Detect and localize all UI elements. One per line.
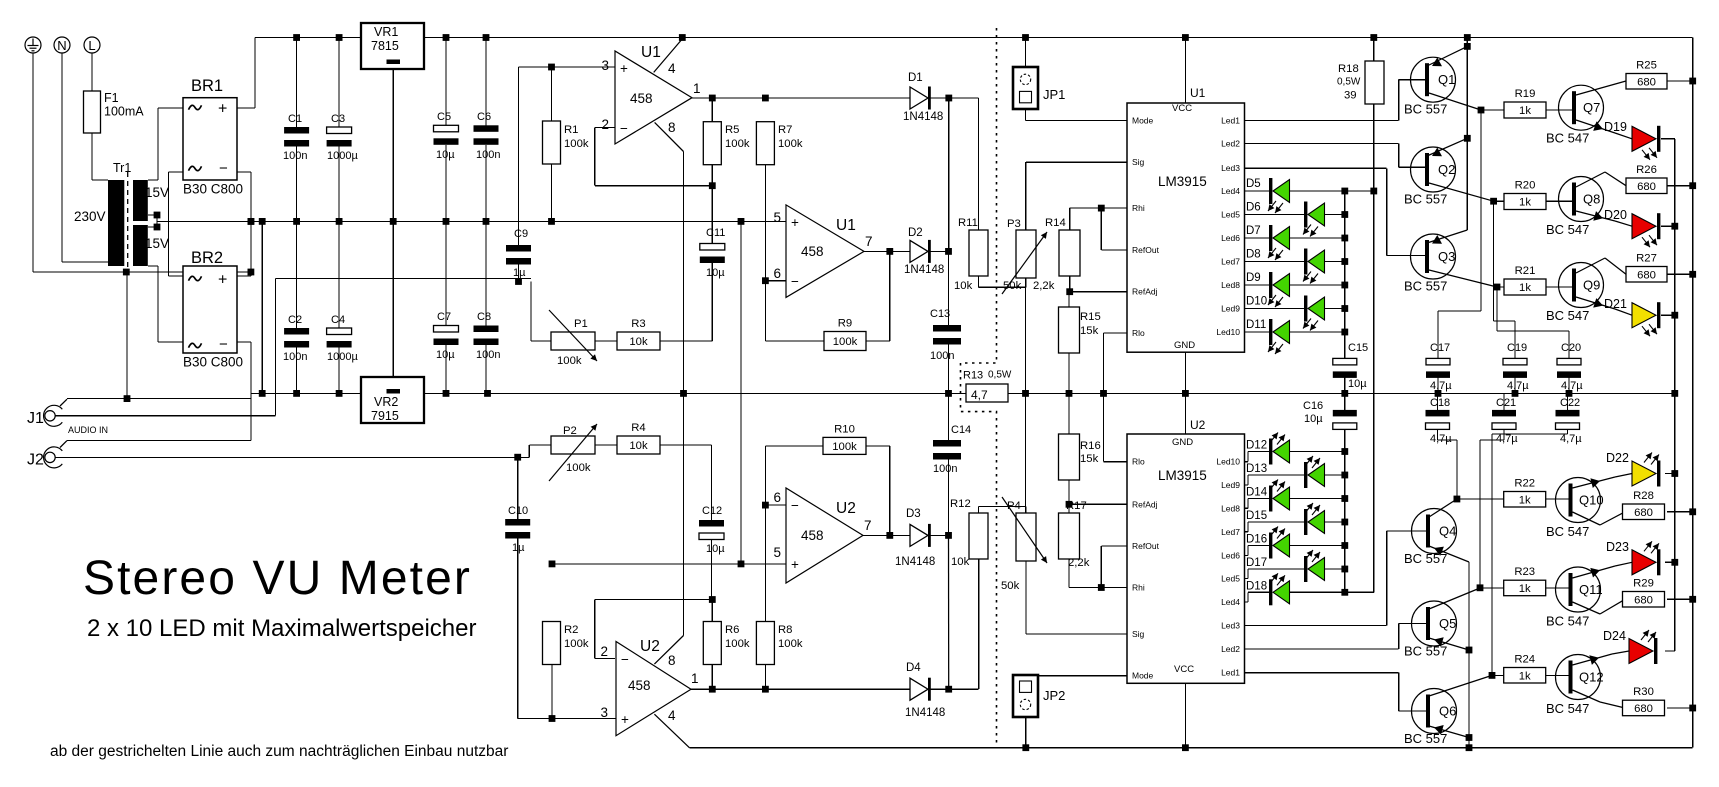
svg-text:R4: R4 (631, 422, 645, 434)
svg-text:Led9: Led9 (1221, 480, 1240, 490)
svg-text:680: 680 (1634, 594, 1653, 606)
svg-text:Led10: Led10 (1216, 327, 1240, 337)
svg-text:U1: U1 (1190, 86, 1206, 100)
svg-text:AUDIO IN: AUDIO IN (68, 425, 108, 435)
svg-text:C6: C6 (477, 111, 491, 123)
svg-text:ab der gestrichelten Linie auc: ab der gestrichelten Linie auch zum nach… (50, 743, 508, 760)
svg-text:Sig: Sig (1132, 629, 1145, 639)
svg-text:100n: 100n (283, 351, 307, 363)
svg-text:Q8: Q8 (1583, 192, 1600, 207)
svg-text:VCC: VCC (1172, 103, 1192, 114)
svg-text:D7: D7 (1246, 225, 1261, 237)
svg-text:VCC: VCC (1174, 664, 1194, 675)
svg-text:100k: 100k (778, 638, 803, 650)
svg-text:Q6: Q6 (1439, 704, 1456, 719)
svg-text:BC 557: BC 557 (1404, 731, 1447, 746)
svg-text:RefOut: RefOut (1132, 541, 1160, 551)
svg-text:Stereo VU Meter: Stereo VU Meter (83, 552, 472, 605)
svg-text:Tr1: Tr1 (113, 161, 131, 175)
svg-text:680: 680 (1634, 507, 1653, 519)
svg-text:Led5: Led5 (1221, 573, 1240, 583)
svg-text:0,5W: 0,5W (1337, 77, 1361, 88)
svg-text:1k: 1k (1519, 670, 1531, 682)
svg-text:8: 8 (668, 653, 676, 668)
svg-text:10k: 10k (629, 336, 648, 348)
svg-text:R19: R19 (1515, 88, 1536, 100)
svg-text:D19: D19 (1604, 120, 1627, 134)
svg-text:+: + (620, 61, 628, 76)
svg-text:100k: 100k (832, 441, 857, 453)
svg-text:+: + (218, 101, 227, 118)
svg-text:BC 547: BC 547 (1546, 614, 1589, 629)
svg-text:R8: R8 (778, 624, 792, 636)
svg-text:−: − (620, 121, 628, 136)
svg-text:C8: C8 (477, 311, 491, 323)
svg-text:15k: 15k (1080, 453, 1099, 465)
svg-text:R20: R20 (1515, 180, 1536, 192)
svg-text:Q10: Q10 (1579, 493, 1604, 508)
svg-text:Led1: Led1 (1221, 116, 1240, 126)
svg-text:D15: D15 (1246, 510, 1267, 522)
svg-text:BR2: BR2 (191, 249, 223, 267)
svg-text:R9: R9 (838, 318, 852, 330)
svg-text:1: 1 (691, 671, 699, 686)
svg-text:R27: R27 (1636, 253, 1657, 265)
svg-text:D3: D3 (906, 508, 921, 520)
svg-text:D24: D24 (1603, 629, 1626, 643)
svg-text:Led8: Led8 (1221, 503, 1240, 513)
svg-text:B30 C800: B30 C800 (183, 182, 243, 197)
svg-text:D8: D8 (1246, 249, 1261, 261)
svg-text:7: 7 (865, 234, 873, 249)
svg-text:C13: C13 (930, 308, 950, 320)
svg-text:D11: D11 (1246, 319, 1266, 331)
svg-text:R13: R13 (963, 370, 983, 382)
svg-text:BC 547: BC 547 (1546, 308, 1589, 323)
svg-text:D1: D1 (908, 72, 923, 84)
svg-text:−: − (791, 274, 799, 289)
svg-text:U2: U2 (836, 500, 856, 517)
svg-text:680: 680 (1637, 269, 1656, 281)
svg-text:JP2: JP2 (1043, 688, 1065, 703)
svg-text:Led4: Led4 (1221, 597, 1240, 607)
svg-text:C16: C16 (1303, 400, 1323, 412)
svg-text:15V: 15V (145, 236, 169, 251)
svg-text:1N4148: 1N4148 (903, 111, 943, 123)
svg-text:VR2: VR2 (374, 395, 398, 409)
svg-text:BC 547: BC 547 (1546, 524, 1589, 539)
svg-text:BR1: BR1 (191, 77, 223, 95)
svg-text:680: 680 (1637, 76, 1656, 88)
svg-text:Q11: Q11 (1579, 582, 1603, 597)
svg-text:Led3: Led3 (1221, 621, 1240, 631)
svg-text:Led7: Led7 (1221, 527, 1240, 537)
svg-text:C20: C20 (1561, 342, 1581, 354)
svg-text:458: 458 (628, 678, 651, 693)
svg-text:LM3915: LM3915 (1158, 468, 1207, 483)
svg-text:100n: 100n (933, 463, 957, 475)
svg-text:230V: 230V (74, 209, 106, 224)
svg-text:R29: R29 (1633, 578, 1654, 590)
svg-text:Led2: Led2 (1221, 139, 1240, 149)
svg-text:C7: C7 (437, 311, 451, 323)
svg-text:Q5: Q5 (1439, 616, 1456, 631)
svg-text:C2: C2 (288, 314, 302, 326)
svg-text:100k: 100k (564, 138, 589, 150)
svg-text:C11: C11 (706, 227, 725, 239)
svg-text:D5: D5 (1246, 178, 1261, 190)
svg-text:D4: D4 (906, 662, 921, 674)
svg-text:RefAdj: RefAdj (1132, 287, 1158, 297)
svg-text:VR1: VR1 (374, 25, 398, 39)
svg-text:4,7µ: 4,7µ (1507, 380, 1529, 392)
svg-text:Q3: Q3 (1438, 249, 1455, 264)
svg-text:7915: 7915 (371, 409, 399, 423)
svg-text:R26: R26 (1636, 164, 1657, 176)
svg-text:15V: 15V (145, 185, 169, 200)
svg-text:1000µ: 1000µ (327, 351, 358, 363)
svg-text:BC 547: BC 547 (1546, 131, 1589, 146)
svg-text:5: 5 (773, 210, 781, 225)
svg-text:D9: D9 (1246, 272, 1261, 284)
svg-text:R15: R15 (1080, 311, 1101, 323)
svg-text:1k: 1k (1519, 583, 1531, 595)
svg-text:D13: D13 (1246, 463, 1267, 475)
svg-text:1µ: 1µ (512, 542, 525, 554)
svg-text:R1: R1 (564, 124, 578, 136)
svg-text:4,7µ: 4,7µ (1561, 380, 1583, 392)
svg-text:39: 39 (1344, 90, 1357, 102)
svg-text:C14: C14 (951, 424, 971, 436)
svg-text:Rhi: Rhi (1132, 583, 1145, 593)
svg-text:10k: 10k (629, 440, 648, 452)
svg-text:C5: C5 (437, 111, 451, 123)
svg-text:Led6: Led6 (1221, 550, 1240, 560)
svg-text:1N4148: 1N4148 (905, 707, 945, 719)
svg-text:100k: 100k (557, 355, 582, 367)
svg-text:458: 458 (630, 91, 653, 106)
svg-text:BC 557: BC 557 (1404, 279, 1447, 294)
svg-text:R23: R23 (1514, 566, 1535, 578)
svg-text:100n: 100n (283, 150, 307, 162)
svg-text:GND: GND (1172, 437, 1193, 448)
svg-text:1N4148: 1N4148 (895, 556, 935, 568)
svg-text:F1: F1 (104, 91, 119, 105)
svg-text:BC 557: BC 557 (1404, 551, 1447, 566)
svg-text:C22: C22 (1560, 397, 1580, 409)
svg-text:U1: U1 (641, 44, 661, 61)
svg-text:1: 1 (693, 81, 701, 96)
svg-text:4,7: 4,7 (971, 388, 988, 402)
svg-text:10µ: 10µ (436, 149, 455, 161)
svg-text:10k: 10k (951, 556, 970, 568)
svg-text:R18: R18 (1338, 63, 1359, 75)
svg-text:2 x 10 LED mit Maximalwertspei: 2 x 10 LED mit Maximalwertspeicher (87, 615, 476, 642)
svg-text:J1: J1 (27, 410, 44, 427)
svg-text:C3: C3 (331, 113, 345, 125)
svg-text:P1: P1 (574, 318, 588, 330)
svg-text:R30: R30 (1633, 686, 1654, 698)
svg-text:1k: 1k (1519, 282, 1531, 294)
svg-text:6: 6 (773, 490, 781, 505)
svg-text:R25: R25 (1636, 60, 1657, 72)
svg-text:Led7: Led7 (1221, 257, 1240, 267)
svg-text:P3: P3 (1007, 218, 1021, 230)
svg-text:4: 4 (668, 708, 676, 723)
svg-text:N: N (57, 38, 66, 53)
svg-text:458: 458 (801, 528, 824, 543)
svg-text:15k: 15k (1080, 325, 1099, 337)
svg-text:D21: D21 (1604, 297, 1627, 311)
svg-text:3: 3 (601, 58, 609, 73)
svg-text:10µ: 10µ (706, 267, 725, 279)
svg-text:D23: D23 (1606, 540, 1629, 554)
svg-text:−: − (621, 652, 629, 667)
svg-text:C10: C10 (508, 505, 528, 517)
svg-text:RefAdj: RefAdj (1132, 499, 1158, 509)
svg-text:R14: R14 (1045, 217, 1066, 229)
svg-text:R11: R11 (958, 217, 978, 229)
svg-text:Q1: Q1 (1438, 72, 1455, 87)
svg-text:U2: U2 (1190, 418, 1206, 432)
svg-text:JP1: JP1 (1043, 87, 1065, 102)
svg-text:Q12: Q12 (1579, 670, 1604, 685)
svg-text:D14: D14 (1246, 487, 1268, 499)
svg-text:Rlo: Rlo (1132, 457, 1145, 467)
svg-text:B30 C800: B30 C800 (183, 355, 243, 370)
svg-text:7815: 7815 (371, 39, 399, 53)
svg-text:R6: R6 (725, 624, 739, 636)
svg-text:R16: R16 (1080, 440, 1101, 452)
svg-text:J2: J2 (27, 452, 44, 469)
svg-text:R28: R28 (1633, 490, 1654, 502)
svg-text:D17: D17 (1246, 557, 1267, 569)
svg-text:Led2: Led2 (1221, 644, 1240, 654)
svg-text:+: + (621, 712, 629, 727)
svg-text:10k: 10k (954, 280, 973, 292)
svg-text:Rhi: Rhi (1132, 203, 1145, 213)
svg-text:Led4: Led4 (1221, 186, 1240, 196)
svg-text:RefOut: RefOut (1132, 245, 1160, 255)
svg-text:4,7µ: 4,7µ (1560, 433, 1582, 445)
svg-text:R3: R3 (631, 318, 645, 330)
svg-text:+: + (791, 215, 799, 230)
svg-text:D6: D6 (1246, 202, 1261, 214)
svg-text:BC 547: BC 547 (1546, 701, 1589, 716)
svg-text:BC 557: BC 557 (1404, 644, 1447, 659)
svg-text:BC 557: BC 557 (1404, 192, 1447, 207)
svg-text:Led9: Led9 (1221, 304, 1240, 314)
svg-text:P2: P2 (563, 425, 577, 437)
svg-text:Q9: Q9 (1583, 278, 1600, 293)
svg-text:100k: 100k (725, 138, 750, 150)
svg-text:4: 4 (668, 61, 676, 76)
svg-text:6: 6 (773, 266, 781, 281)
svg-text:10µ: 10µ (436, 349, 455, 361)
svg-text:R17: R17 (1066, 500, 1087, 512)
svg-text:D10: D10 (1246, 296, 1267, 308)
svg-text:U2: U2 (640, 638, 660, 655)
svg-text:R5: R5 (725, 124, 739, 136)
svg-text:2,2k: 2,2k (1068, 557, 1090, 569)
svg-text:BC 557: BC 557 (1404, 102, 1447, 117)
svg-text:D20: D20 (1604, 208, 1627, 222)
svg-text:C4: C4 (331, 314, 345, 326)
svg-text:100k: 100k (778, 138, 803, 150)
svg-text:Led10: Led10 (1216, 457, 1240, 467)
svg-text:Led3: Led3 (1221, 163, 1240, 173)
svg-text:R10: R10 (834, 423, 855, 435)
svg-text:680: 680 (1637, 181, 1656, 193)
svg-text:P4: P4 (1007, 500, 1021, 512)
svg-text:Led6: Led6 (1221, 233, 1240, 243)
svg-text:1k: 1k (1519, 197, 1531, 209)
svg-text:4,7µ: 4,7µ (1496, 433, 1518, 445)
svg-text:8: 8 (668, 120, 676, 135)
svg-text:Sig: Sig (1132, 157, 1145, 167)
svg-text:100k: 100k (833, 336, 858, 348)
svg-text:C1: C1 (288, 113, 302, 125)
svg-text:Mode: Mode (1132, 116, 1154, 126)
svg-text:1k: 1k (1519, 494, 1531, 506)
svg-text:100k: 100k (564, 638, 589, 650)
svg-text:C19: C19 (1507, 342, 1527, 354)
svg-text:2,2k: 2,2k (1033, 280, 1055, 292)
svg-text:100n: 100n (930, 350, 954, 362)
svg-text:10µ: 10µ (1304, 413, 1323, 425)
svg-text:1µ: 1µ (513, 267, 526, 279)
svg-text:R2: R2 (564, 624, 578, 636)
svg-text:+: + (791, 557, 799, 572)
svg-text:C12: C12 (702, 505, 722, 517)
svg-text:0,5W: 0,5W (988, 370, 1012, 381)
svg-text:680: 680 (1634, 703, 1653, 715)
svg-text:458: 458 (801, 244, 824, 259)
svg-text:100k: 100k (566, 462, 591, 474)
svg-text:1k: 1k (1519, 105, 1531, 117)
svg-text:100k: 100k (725, 638, 750, 650)
svg-text:D16: D16 (1246, 534, 1267, 546)
svg-text:R22: R22 (1514, 478, 1535, 490)
svg-text:50k: 50k (1003, 280, 1022, 292)
svg-text:LM3915: LM3915 (1158, 174, 1207, 189)
svg-text:100n: 100n (476, 349, 500, 361)
svg-text:R21: R21 (1515, 265, 1536, 277)
svg-text:L: L (88, 38, 95, 53)
svg-text:3: 3 (600, 705, 608, 720)
svg-text:C15: C15 (1348, 342, 1368, 354)
svg-text:BC 547: BC 547 (1546, 222, 1589, 237)
svg-text:R12: R12 (950, 498, 971, 510)
svg-text:Led1: Led1 (1221, 668, 1240, 678)
svg-text:C18: C18 (1430, 397, 1450, 409)
svg-text:5: 5 (773, 545, 781, 560)
svg-text:−: − (791, 498, 799, 513)
svg-text:D22: D22 (1606, 451, 1629, 465)
svg-text:7: 7 (864, 518, 872, 533)
svg-text:−: − (219, 160, 228, 177)
svg-text:100n: 100n (476, 149, 500, 161)
svg-text:−: − (219, 336, 228, 353)
svg-text:D2: D2 (908, 227, 923, 239)
svg-text:1N4148: 1N4148 (904, 264, 944, 276)
svg-text:4,7µ: 4,7µ (1430, 380, 1452, 392)
svg-text:50k: 50k (1001, 580, 1020, 592)
svg-text:D18: D18 (1246, 580, 1267, 592)
svg-text:4,7µ: 4,7µ (1430, 433, 1452, 445)
svg-text:Q4: Q4 (1439, 524, 1456, 539)
svg-text:10µ: 10µ (1348, 378, 1367, 390)
svg-text:Mode: Mode (1132, 671, 1154, 681)
svg-text:D12: D12 (1246, 440, 1267, 452)
svg-text:+: + (218, 272, 227, 289)
svg-text:U1: U1 (836, 217, 856, 234)
svg-text:Q2: Q2 (1438, 162, 1455, 177)
svg-text:C9: C9 (514, 228, 528, 240)
svg-text:2: 2 (601, 117, 609, 132)
svg-text:100mA: 100mA (104, 105, 144, 119)
svg-text:10µ: 10µ (706, 543, 725, 555)
svg-text:Led8: Led8 (1221, 280, 1240, 290)
svg-text:C17: C17 (1430, 342, 1450, 354)
svg-text:Rlo: Rlo (1132, 328, 1145, 338)
svg-text:GND: GND (1174, 340, 1195, 351)
svg-text:Led5: Led5 (1221, 210, 1240, 220)
svg-text:R7: R7 (778, 124, 792, 136)
svg-text:Q7: Q7 (1583, 100, 1600, 115)
svg-text:2: 2 (600, 644, 608, 659)
svg-text:C21: C21 (1496, 397, 1516, 409)
svg-text:R24: R24 (1514, 654, 1535, 666)
svg-text:1000µ: 1000µ (327, 150, 358, 162)
